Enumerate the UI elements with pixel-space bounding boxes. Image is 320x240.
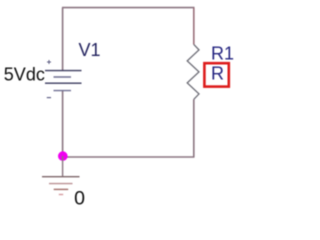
junction dot (node)	[58, 151, 68, 161]
svg-text:R: R	[211, 63, 224, 83]
wire right vertical lower	[193, 99, 195, 157]
wire right vertical upper	[193, 8, 195, 45]
red highlight box around value R	[204, 63, 228, 86]
voltage source V1 upper short plate	[54, 76, 72, 78]
voltage source V1 bottom short plate	[54, 90, 72, 92]
wire top horizontal	[62, 7, 195, 9]
voltage source V1 lower long plate	[45, 82, 82, 84]
svg-text:5Vdc: 5Vdc	[4, 64, 45, 84]
minus sign of V1	[47, 97, 51, 99]
wire source bottom pin to junction	[62, 91, 64, 157]
voltage source V1 top plate (long)	[45, 70, 82, 72]
resistor R1 zigzag	[187, 44, 199, 99]
ground bar 1	[42, 176, 80, 178]
ground stub wire	[62, 156, 64, 177]
ground bar 2	[49, 183, 73, 185]
svg-text:V1: V1	[79, 40, 101, 60]
svg-text:0: 0	[74, 188, 85, 210]
wire left vertical (source top pin)	[62, 8, 64, 71]
wire bottom horizontal	[63, 156, 195, 158]
svg-text:R1: R1	[211, 44, 234, 64]
ground bar 3	[54, 188, 68, 190]
plus sign of V1	[47, 60, 51, 64]
ground bar 4	[59, 194, 63, 196]
